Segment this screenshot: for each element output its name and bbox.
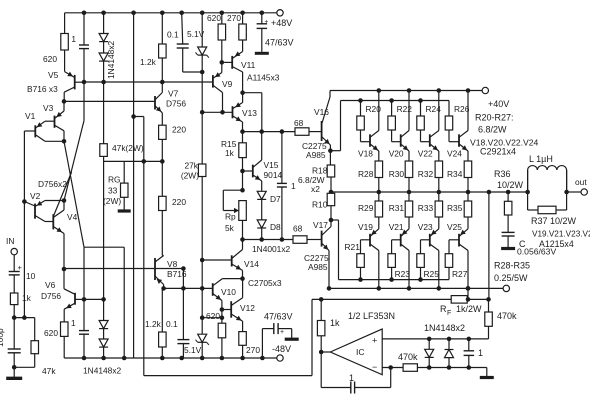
- svg-text:R37 10/2W: R37 10/2W: [531, 216, 577, 226]
- svg-text:68: 68: [293, 224, 303, 234]
- svg-text:1.2k: 1.2k: [145, 319, 162, 329]
- svg-text:R35: R35: [447, 203, 463, 213]
- svg-text:A1145x3: A1145x3: [247, 73, 280, 83]
- svg-text:1N4148x2: 1N4148x2: [106, 40, 116, 79]
- svg-text:10: 10: [26, 271, 36, 281]
- svg-text:27k: 27k: [184, 161, 198, 171]
- svg-text:R21: R21: [345, 242, 361, 252]
- svg-text:D7: D7: [270, 194, 281, 204]
- svg-text:R33: R33: [418, 203, 434, 213]
- svg-text:+40V: +40V: [488, 99, 509, 109]
- svg-text:+: +: [280, 329, 284, 336]
- svg-text:100p: 100p: [0, 328, 5, 347]
- svg-text:1: 1: [478, 348, 483, 358]
- svg-text:1: 1: [71, 34, 76, 44]
- svg-text:1N4148x2: 1N4148x2: [83, 366, 122, 376]
- svg-text:1N4001x2: 1N4001x2: [252, 244, 291, 254]
- svg-text:V1: V1: [25, 111, 36, 121]
- svg-text:Rp: Rp: [225, 212, 236, 222]
- svg-text:D756x2: D756x2: [38, 179, 67, 189]
- svg-text:270: 270: [227, 13, 241, 23]
- svg-text:220: 220: [172, 197, 186, 207]
- svg-text:V12: V12: [240, 303, 255, 313]
- svg-text:R34: R34: [447, 169, 463, 179]
- svg-text:RG: RG: [108, 175, 121, 185]
- svg-text:620: 620: [207, 13, 221, 23]
- svg-text:620: 620: [206, 311, 220, 321]
- svg-text:V13: V13: [242, 108, 257, 118]
- svg-text:V18: V18: [358, 149, 373, 159]
- svg-text:R28-R35: R28-R35: [494, 261, 530, 271]
- svg-text:V23: V23: [418, 222, 433, 232]
- svg-text:R22: R22: [397, 104, 413, 114]
- svg-text:+: +: [265, 19, 269, 26]
- svg-text:R23: R23: [395, 269, 411, 279]
- svg-text:A1215x4: A1215x4: [539, 239, 574, 249]
- svg-text:V19: V19: [358, 222, 373, 232]
- svg-text:A985: A985: [306, 150, 326, 160]
- svg-text:+: +: [18, 263, 23, 272]
- svg-text:68: 68: [294, 118, 304, 128]
- svg-text:6.8/2W: 6.8/2W: [478, 125, 507, 135]
- svg-text:47k(2W): 47k(2W): [112, 143, 144, 153]
- svg-text:1: 1: [349, 373, 354, 383]
- svg-text:V2: V2: [30, 191, 41, 201]
- svg-text:V14: V14: [244, 259, 259, 269]
- svg-text:10/2W: 10/2W: [497, 180, 524, 190]
- svg-text:V9: V9: [222, 79, 233, 89]
- svg-text:+48V: +48V: [271, 18, 292, 28]
- svg-text:V3: V3: [43, 103, 54, 113]
- svg-text:x2: x2: [311, 184, 320, 194]
- svg-text:C2921x4: C2921x4: [480, 147, 516, 157]
- svg-text:V16: V16: [314, 107, 329, 117]
- svg-text:V6: V6: [45, 280, 56, 290]
- svg-text:1.2k: 1.2k: [140, 57, 157, 67]
- svg-text:1k/2W: 1k/2W: [456, 304, 482, 314]
- svg-text:R31: R31: [389, 203, 405, 213]
- svg-text:1k: 1k: [225, 148, 235, 158]
- svg-text:-48V: -48V: [272, 344, 291, 354]
- svg-text:D756: D756: [166, 99, 186, 109]
- svg-text:R32: R32: [418, 169, 434, 179]
- svg-text:47/63V: 47/63V: [264, 312, 293, 322]
- svg-text:R10: R10: [312, 200, 328, 210]
- svg-text:R28: R28: [358, 169, 374, 179]
- svg-text:9014: 9014: [264, 170, 283, 180]
- svg-text:470k: 470k: [497, 311, 517, 321]
- svg-text:1/2 LF353N: 1/2 LF353N: [348, 311, 395, 321]
- svg-text:out: out: [575, 177, 587, 187]
- svg-text:47/63V: 47/63V: [265, 38, 294, 48]
- svg-text:V4: V4: [67, 212, 78, 222]
- svg-text:V8: V8: [167, 259, 178, 269]
- svg-text:0.1: 0.1: [166, 319, 178, 329]
- svg-text:V24: V24: [447, 149, 462, 159]
- svg-text:R20-R27:: R20-R27:: [475, 113, 514, 123]
- svg-text:IN: IN: [6, 236, 14, 246]
- svg-text:L 1µH: L 1µH: [529, 154, 553, 164]
- svg-text:1: 1: [291, 181, 296, 191]
- svg-text:V22: V22: [418, 149, 433, 159]
- svg-text:+: +: [372, 336, 377, 346]
- svg-text:R26: R26: [454, 104, 470, 114]
- svg-text:1: 1: [71, 318, 76, 328]
- svg-text:33: 33: [108, 186, 118, 196]
- svg-text:1N4148x2: 1N4148x2: [424, 323, 465, 333]
- svg-text:V25: V25: [447, 222, 462, 232]
- svg-text:R25: R25: [424, 269, 440, 279]
- svg-text:IC: IC: [356, 347, 365, 357]
- svg-text:47k: 47k: [42, 366, 56, 376]
- svg-text:C2705x3: C2705x3: [248, 278, 282, 288]
- svg-text:V19.V21.V23.V25: V19.V21.V23.V25: [532, 230, 590, 239]
- svg-text:V15: V15: [264, 160, 279, 170]
- svg-text:B716 x3: B716 x3: [27, 84, 58, 94]
- svg-text:R29: R29: [358, 203, 374, 213]
- svg-text:1k: 1k: [22, 293, 32, 303]
- svg-text:V10: V10: [221, 287, 236, 297]
- svg-text:5k: 5k: [225, 223, 235, 233]
- svg-text:5.1V: 5.1V: [184, 345, 202, 355]
- svg-text:(2W): (2W): [181, 171, 199, 181]
- svg-text:−: −: [372, 362, 377, 372]
- svg-text:F: F: [447, 310, 451, 317]
- svg-text:470k: 470k: [398, 352, 418, 362]
- svg-text:D756: D756: [41, 291, 61, 301]
- svg-text:0.25/5W: 0.25/5W: [494, 273, 528, 283]
- svg-text:V21: V21: [389, 222, 404, 232]
- svg-text:(2W): (2W): [103, 196, 121, 206]
- svg-text:R18: R18: [312, 166, 328, 176]
- svg-text:V17: V17: [313, 220, 328, 230]
- svg-text:R30: R30: [389, 169, 405, 179]
- svg-text:5.1V: 5.1V: [187, 29, 205, 39]
- svg-text:A985: A985: [308, 262, 328, 272]
- svg-text:1k: 1k: [330, 318, 340, 328]
- svg-text:R27: R27: [452, 269, 468, 279]
- svg-text:V11: V11: [241, 60, 256, 70]
- svg-text:220: 220: [172, 125, 186, 135]
- svg-text:620: 620: [43, 54, 57, 64]
- svg-text:D8: D8: [270, 222, 281, 232]
- svg-text:620: 620: [44, 328, 58, 338]
- svg-text:0.1: 0.1: [167, 30, 179, 40]
- svg-text:R: R: [440, 304, 447, 314]
- svg-text:V7: V7: [168, 89, 179, 99]
- svg-text:V20: V20: [389, 149, 404, 159]
- svg-text:R36: R36: [494, 169, 511, 179]
- svg-text:270: 270: [246, 345, 260, 355]
- svg-text:V5: V5: [48, 70, 59, 80]
